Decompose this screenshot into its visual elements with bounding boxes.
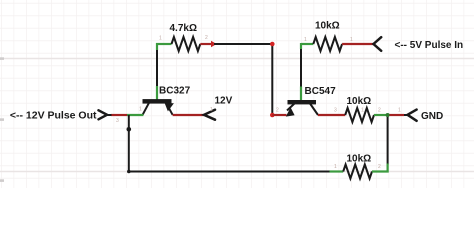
svg-text:2: 2 [205,35,208,41]
svg-text:<-- 12V Pulse Out: <-- 12V Pulse Out [10,110,97,122]
svg-text:GND: GND [421,111,443,122]
svg-text:10kΩ: 10kΩ [347,154,372,165]
svg-text:1: 1 [334,164,337,170]
svg-text:<-- 5V Pulse In: <-- 5V Pulse In [395,40,464,51]
svg-text:1: 1 [139,107,142,113]
svg-text:BC547: BC547 [305,86,337,97]
svg-text:1: 1 [350,37,353,43]
svg-text:3: 3 [116,118,119,124]
svg-text:1: 1 [304,37,307,43]
svg-text:1: 1 [210,107,213,113]
svg-text:2: 2 [276,108,279,114]
svg-text:BC327: BC327 [159,86,191,97]
svg-text:4.7kΩ: 4.7kΩ [170,23,197,34]
svg-text:10kΩ: 10kΩ [347,96,372,107]
svg-text:1: 1 [159,36,162,42]
svg-text:3: 3 [334,108,337,114]
svg-text:2: 2 [378,108,381,114]
svg-text:1: 1 [361,108,364,114]
svg-text:2: 2 [378,164,381,170]
svg-text:1: 1 [398,108,401,114]
svg-text:10kΩ: 10kΩ [315,21,340,32]
svg-text:12V: 12V [215,96,233,107]
